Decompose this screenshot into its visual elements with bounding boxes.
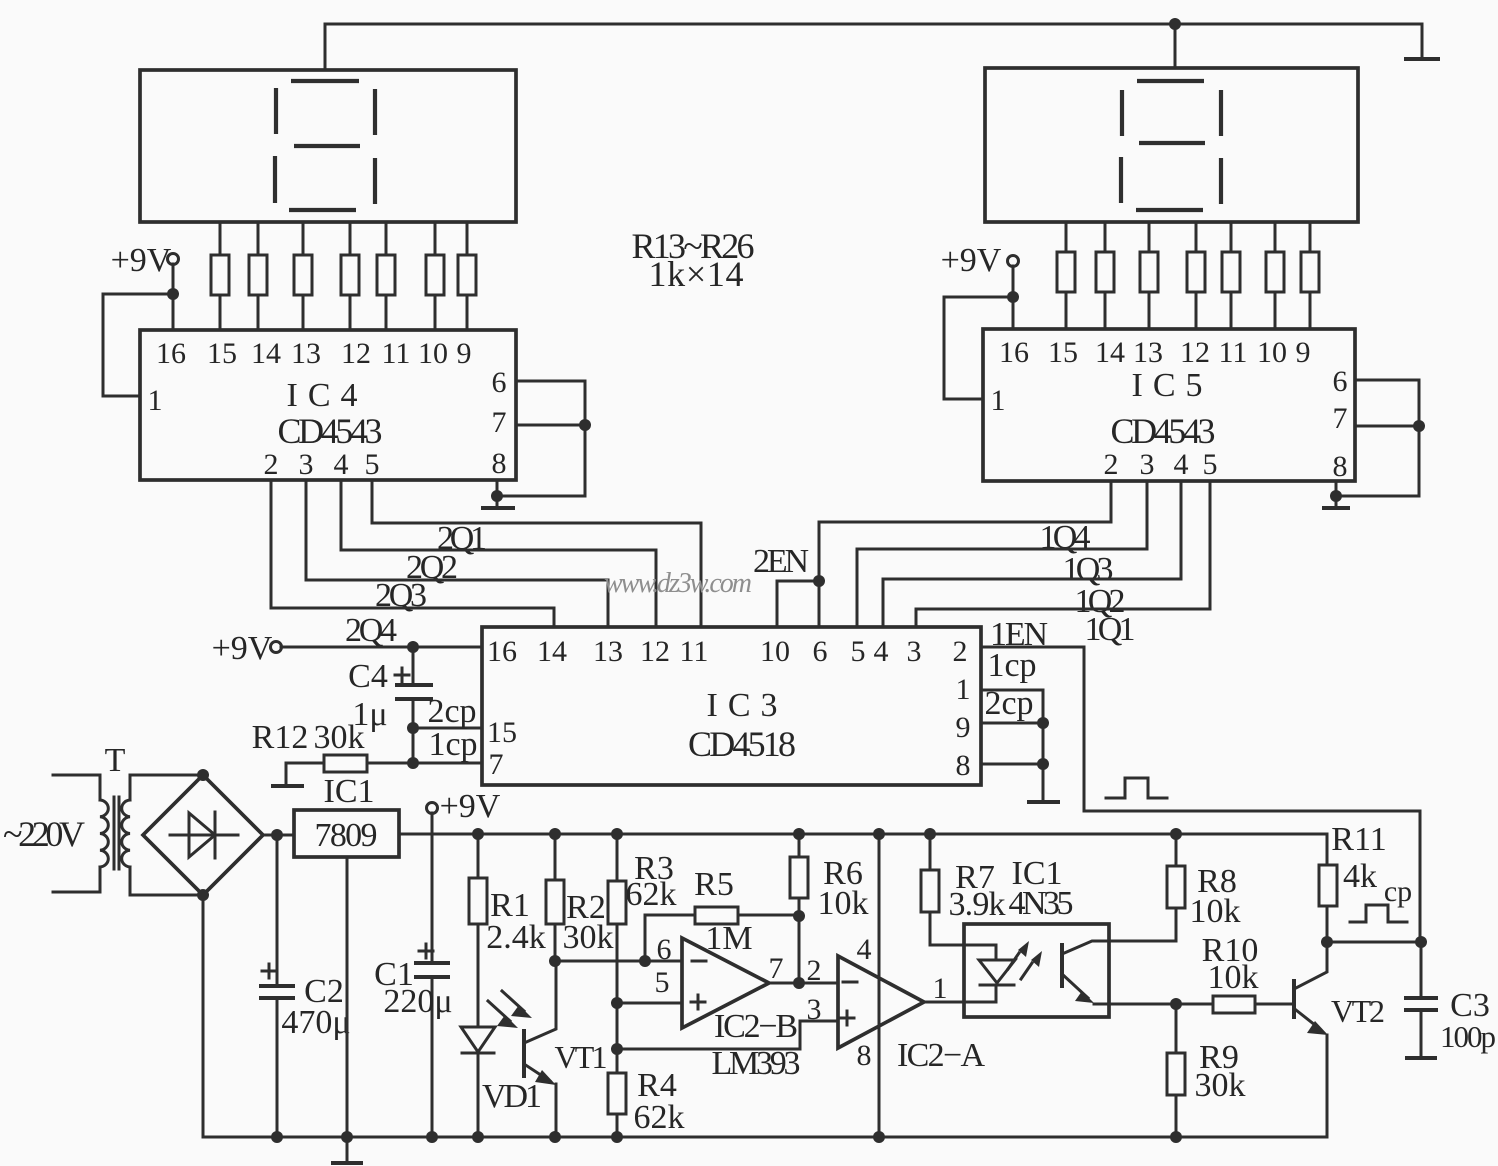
capacitor C1 220u	[374, 834, 452, 1137]
svg-text:9: 9	[457, 337, 472, 370]
svg-text:+9V: +9V	[111, 242, 172, 279]
svg-text:13: 13	[1133, 336, 1163, 369]
node	[271, 1131, 283, 1143]
svg-text:1: 1	[991, 384, 1006, 417]
node	[1413, 420, 1425, 432]
+9V supply rail	[399, 834, 1327, 865]
svg-text:30k: 30k	[1195, 1067, 1246, 1104]
wire: +9V loop to IC4 pin 1	[103, 294, 173, 396]
svg-text:+9V: +9V	[440, 788, 501, 825]
svg-text:1Q1: 1Q1	[1085, 611, 1136, 648]
wire: +9V loop to IC5 pin 1	[944, 297, 1013, 399]
svg-text:3: 3	[907, 635, 922, 668]
svg-text:14: 14	[251, 337, 281, 370]
wire: IC5 pin 8	[1335, 481, 1338, 496]
svg-text:2: 2	[264, 448, 279, 481]
svg-text:2: 2	[953, 635, 968, 668]
svg-text:+9V: +9V	[941, 242, 1002, 279]
svg-text:1cp: 1cp	[428, 726, 477, 763]
svg-text:62k: 62k	[634, 1099, 685, 1136]
ground (R12)	[271, 784, 304, 788]
resistor R11 4k	[1319, 821, 1387, 942]
net 1Q3: IC5 pin3 to IC3 pin 5	[857, 481, 1147, 627]
node	[1330, 490, 1342, 502]
svg-text:14: 14	[1095, 336, 1125, 369]
svg-text:16: 16	[156, 337, 186, 370]
resistor R13	[211, 222, 229, 330]
svg-text:1: 1	[956, 673, 971, 706]
+9V output terminal	[427, 788, 501, 834]
svg-text:1k×14: 1k×14	[649, 254, 744, 294]
svg-text:16: 16	[487, 635, 517, 668]
transistor VT2	[1294, 942, 1385, 1137]
svg-text:8: 8	[492, 447, 507, 480]
svg-text:30k: 30k	[563, 919, 614, 956]
7-segment display DS1	[140, 70, 516, 222]
wire	[616, 1003, 619, 1049]
IC U5 CD4543	[983, 329, 1355, 483]
wire: 7809 gnd pin to rail	[346, 857, 349, 1137]
svg-text:7: 7	[1333, 402, 1348, 435]
svg-text:5: 5	[1203, 448, 1218, 481]
svg-text:12: 12	[341, 337, 371, 370]
svg-text:7: 7	[492, 406, 507, 439]
wire: IC2-B output to IC2-A pin 2	[769, 982, 838, 985]
node	[579, 419, 591, 431]
phototransistor VT1	[488, 961, 608, 1143]
svg-text:8: 8	[1333, 450, 1348, 483]
svg-text:12: 12	[1180, 336, 1210, 369]
svg-text:CD4543: CD4543	[278, 411, 383, 451]
resistor R23	[1187, 222, 1205, 329]
resistor R2 30k	[546, 828, 614, 961]
net 1Q1: IC5 pin5 to IC3 pin 3	[916, 481, 1210, 648]
diode VD1	[461, 1027, 542, 1143]
svg-text:2: 2	[1104, 448, 1119, 481]
svg-text:2Q4: 2Q4	[345, 612, 397, 649]
wire: rail down to DS2	[1174, 24, 1177, 68]
ground (C3)	[1405, 1056, 1437, 1060]
svg-text:30k: 30k	[314, 719, 365, 756]
svg-text:14: 14	[537, 635, 567, 668]
label cp with pulse symbol	[1350, 875, 1412, 922]
resistor R19	[458, 222, 476, 330]
svg-text:~220V: ~220V	[3, 814, 85, 854]
net 1Q4: IC5 pin2 to IC3 pin 6	[819, 481, 1111, 627]
resistor R12 30k	[252, 719, 413, 784]
bridge rectifier	[143, 769, 263, 901]
svg-text:2cp: 2cp	[984, 685, 1033, 722]
resistor R22	[1140, 222, 1158, 329]
svg-text:2.4k: 2.4k	[486, 919, 546, 956]
net 2EN branch to IC3 pin 10	[753, 543, 825, 627]
svg-text:15: 15	[1048, 336, 1078, 369]
wire: cp node to C3	[1327, 941, 1421, 944]
svg-text:13: 13	[593, 635, 623, 668]
svg-text:1: 1	[933, 972, 948, 1005]
capacitor C3 100p	[1404, 942, 1496, 1057]
net 2Q2: IC4 pin4 to IC3 pin 12	[341, 480, 656, 627]
wire: IC5 pin 6 loop	[1336, 380, 1419, 496]
svg-text:12: 12	[640, 635, 670, 668]
wire: bridge - to ground rail	[202, 895, 205, 1137]
node	[611, 1043, 623, 1055]
op-amp IC2-A (LM393)	[807, 933, 986, 1074]
voltage regulator IC1 7809	[294, 773, 399, 857]
wire: IC4 pin 6 to latch disable loop	[497, 381, 585, 496]
node	[793, 977, 805, 989]
+9V terminal (IC5)	[941, 242, 1019, 279]
svg-text:6: 6	[492, 366, 507, 399]
svg-text:5: 5	[655, 966, 670, 999]
svg-text:8: 8	[857, 1039, 872, 1072]
ground (top right)	[1404, 57, 1440, 61]
svg-text:10k: 10k	[818, 885, 869, 922]
capacitor C2 470u	[259, 835, 351, 1137]
svg-text:4: 4	[334, 448, 349, 481]
wire: top common rail	[325, 24, 1422, 68]
svg-text:IC2−A: IC2−A	[897, 1037, 985, 1074]
svg-text:IC4: IC4	[287, 377, 358, 414]
svg-text:3: 3	[807, 993, 822, 1026]
svg-text:VT2: VT2	[1331, 993, 1385, 1029]
resistor R3 62k	[608, 828, 677, 1003]
node	[491, 490, 503, 502]
svg-text:4k: 4k	[1343, 858, 1377, 895]
svg-text:4: 4	[874, 635, 889, 668]
ground (IC5 pin 8)	[1322, 496, 1350, 508]
svg-text:5: 5	[851, 635, 866, 668]
svg-text:3.9k: 3.9k	[949, 886, 1006, 923]
wire: IC4 pin 7	[516, 424, 585, 427]
wire: node to IC2-B pin 6	[555, 960, 682, 963]
svg-text:4N35: 4N35	[1009, 885, 1074, 922]
pulse waveform symbol (near IC3)	[1106, 778, 1167, 798]
resistor R8 10k	[1167, 828, 1241, 941]
wire: IC3 pin 1 (1cp)	[981, 647, 1043, 723]
svg-text:220μ: 220μ	[383, 983, 452, 1020]
+9V terminal (IC3)	[212, 630, 282, 667]
resistor R7 3.9k	[921, 828, 1006, 945]
capacitor C4 1u	[348, 647, 433, 733]
svg-text:+9V: +9V	[212, 630, 273, 667]
svg-text:4: 4	[857, 933, 872, 966]
svg-text:R11: R11	[1331, 821, 1386, 858]
svg-text:16: 16	[999, 336, 1029, 369]
svg-text:1: 1	[148, 384, 163, 417]
resistor R17	[377, 222, 395, 330]
svg-text:2EN: 2EN	[753, 543, 809, 580]
svg-text:2cp: 2cp	[427, 693, 476, 730]
node	[1415, 936, 1427, 948]
svg-text:2: 2	[807, 954, 822, 987]
net 2Q4: IC4 pin2 to IC3 pin 14	[271, 480, 554, 649]
resistor R18	[426, 222, 444, 330]
svg-text:3: 3	[1140, 448, 1155, 481]
svg-text:11: 11	[680, 635, 709, 668]
resistor R10 10k	[1176, 932, 1294, 1013]
node	[611, 997, 623, 1009]
transformer T	[53, 742, 203, 895]
resistor R14	[249, 222, 267, 330]
ground rail (bottom)	[203, 1136, 1327, 1139]
svg-text:7809: 7809	[315, 817, 378, 854]
wire: +9V to IC4 pin 16	[172, 264, 175, 330]
svg-text:R12: R12	[252, 719, 309, 756]
resistor R6 10k	[790, 828, 869, 983]
node (R5 tap)	[639, 955, 651, 967]
resistor R24	[1222, 222, 1240, 329]
svg-text:1M: 1M	[705, 920, 752, 957]
resistor R4 62k	[608, 1049, 685, 1143]
node	[1037, 717, 1049, 729]
svg-text:cp: cp	[1384, 875, 1412, 908]
resistor R26	[1301, 222, 1319, 329]
svg-text:6: 6	[813, 635, 828, 668]
node	[167, 288, 179, 300]
resistor R16	[341, 222, 359, 330]
IC U4 CD4543	[140, 330, 516, 481]
node: rail junction above DS2	[1169, 18, 1181, 30]
wire: IC4 pin 8	[496, 480, 499, 496]
net 2cp to IC3 pin 15	[413, 693, 482, 730]
wire	[412, 728, 415, 763]
resistor R15	[294, 222, 312, 330]
wire down to ground	[1042, 723, 1045, 801]
node	[407, 722, 419, 734]
svg-text:6: 6	[657, 933, 672, 966]
+9V terminal (IC4)	[111, 242, 179, 279]
node	[1170, 998, 1182, 1010]
svg-text:10: 10	[760, 635, 790, 668]
svg-text:7: 7	[489, 748, 504, 781]
svg-text:1cp: 1cp	[987, 647, 1036, 684]
wire: bridge + output	[263, 834, 294, 837]
svg-text:C4: C4	[348, 658, 388, 695]
node	[341, 1131, 353, 1143]
node	[271, 829, 283, 841]
node	[426, 1131, 438, 1143]
svg-text:10: 10	[418, 337, 448, 370]
resistor R1 2.4k	[469, 828, 546, 1027]
wire: divider to IC2-A pin 3	[617, 1021, 838, 1049]
wire: IC3 pin 9 (2cp)	[981, 685, 1043, 723]
net 1Q2: IC5 pin4 to IC3 pin 4	[883, 481, 1181, 627]
svg-text:6: 6	[1333, 365, 1348, 398]
wire: IC3 pin 8	[981, 763, 1043, 766]
node	[1037, 758, 1049, 770]
svg-text:IC2−B: IC2−B	[714, 1008, 798, 1045]
net 1cp to IC3 pin 7	[413, 726, 482, 763]
svg-text:R5: R5	[694, 866, 734, 903]
resistor R20	[1057, 222, 1075, 329]
wire: IC2-A power pins 4/8	[878, 834, 881, 1137]
wire: IC2-A output into optocoupler	[924, 1001, 996, 1004]
svg-text:10k: 10k	[1190, 893, 1241, 930]
node	[1007, 291, 1019, 303]
net 2Q3: IC4 pin3 to IC3 pin 13	[306, 480, 608, 627]
node	[407, 757, 419, 769]
node (cp)	[1321, 936, 1333, 948]
node	[407, 641, 419, 653]
svg-text:10: 10	[1257, 336, 1287, 369]
net 1EN: IC3 pin 2 to cp node	[981, 616, 1420, 942]
svg-text:100p: 100p	[1440, 1019, 1496, 1054]
svg-text:62k: 62k	[626, 876, 677, 913]
wire: +9V to IC5 pin 16	[1012, 266, 1015, 329]
svg-text:470μ: 470μ	[281, 1004, 350, 1041]
svg-text:CD4543: CD4543	[1111, 411, 1216, 451]
ground (rail)	[331, 1137, 363, 1163]
net 2Q1: IC4 pin5 to IC3 pin 11	[372, 480, 701, 627]
node	[793, 910, 805, 922]
svg-text:IC5: IC5	[1132, 367, 1203, 404]
svg-text:LM393: LM393	[712, 1045, 801, 1082]
optocoupler IC1 4N35	[964, 855, 1176, 1017]
7-segment display DS2	[985, 68, 1358, 222]
svg-text:IC1: IC1	[324, 773, 375, 810]
wire: divider to IC2-B pin 5	[617, 1002, 682, 1005]
svg-text:CD4518: CD4518	[688, 724, 796, 764]
svg-text:5: 5	[365, 448, 380, 481]
svg-text:7: 7	[769, 952, 784, 985]
svg-text:15: 15	[207, 337, 237, 370]
ground (IC3)	[1027, 800, 1060, 804]
svg-text:VD1: VD1	[482, 1078, 542, 1115]
node	[549, 955, 561, 967]
wire: IC5 pin 7	[1355, 425, 1419, 428]
svg-text:T: T	[105, 742, 126, 779]
resistor R9 30k	[1167, 1004, 1246, 1143]
resistor R25	[1266, 222, 1284, 329]
svg-text:VT1: VT1	[555, 1039, 608, 1075]
wire: +9V to IC3 pin 16	[281, 646, 482, 649]
svg-text:www.dz3w.com: www.dz3w.com	[604, 568, 752, 599]
IC U3 CD4518	[482, 627, 981, 785]
op-amp IC2-B (LM393)	[655, 933, 801, 1082]
svg-text:4: 4	[1174, 448, 1189, 481]
svg-text:3: 3	[299, 448, 314, 481]
resistor R21	[1096, 222, 1114, 329]
resistor R5 1M (feedback)	[645, 866, 799, 961]
svg-text:11: 11	[1219, 336, 1248, 369]
svg-text:11: 11	[382, 337, 411, 370]
svg-text:9: 9	[1296, 336, 1311, 369]
svg-text:13: 13	[291, 337, 321, 370]
ground (IC4 pin 8)	[481, 496, 515, 508]
svg-text:10k: 10k	[1208, 959, 1259, 996]
svg-text:8: 8	[956, 749, 971, 782]
svg-text:9: 9	[956, 711, 971, 744]
svg-text:15: 15	[487, 716, 517, 749]
label: resistor network R13~R26 1k x 14	[632, 226, 755, 294]
svg-text:IC3: IC3	[707, 687, 778, 724]
